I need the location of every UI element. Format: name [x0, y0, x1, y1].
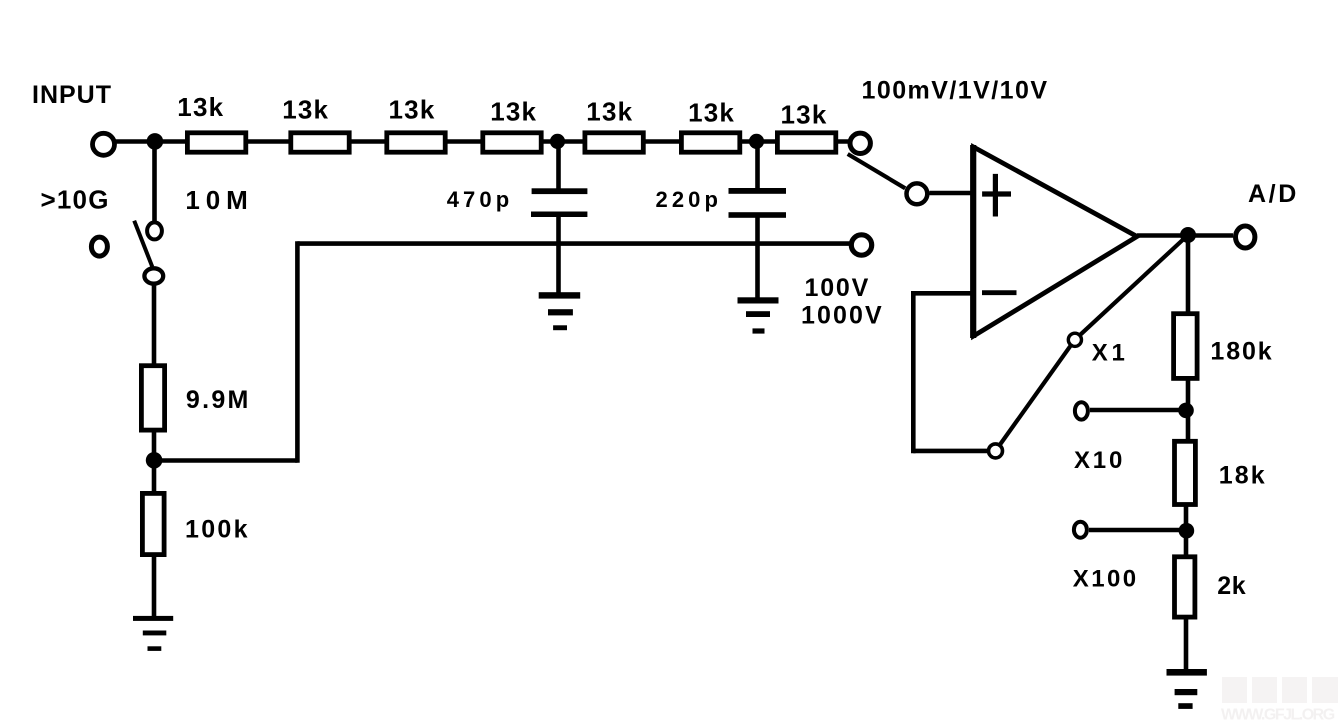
svg-text:13k: 13k — [389, 94, 436, 124]
svg-text:1000V: 1000V — [801, 302, 884, 330]
svg-text:9.9M: 9.9M — [186, 386, 251, 414]
svg-text:13k: 13k — [177, 92, 224, 122]
svg-text:470p: 470p — [447, 187, 514, 212]
svg-text:X10: X10 — [1074, 447, 1125, 474]
svg-text:WWW.GFJL.ORG: WWW.GFJL.ORG — [1221, 707, 1335, 724]
svg-text:INPUT: INPUT — [32, 81, 112, 109]
svg-text:13k: 13k — [688, 97, 735, 127]
svg-text:18k: 18k — [1219, 462, 1267, 490]
svg-text:13k: 13k — [586, 96, 633, 126]
svg-text:10M: 10M — [185, 185, 253, 215]
svg-text:A/D: A/D — [1248, 180, 1299, 208]
svg-text:13k: 13k — [282, 95, 329, 125]
svg-text:100V: 100V — [805, 274, 871, 302]
svg-text:13k: 13k — [781, 100, 828, 130]
svg-text:100k: 100k — [185, 515, 250, 543]
svg-text:2k: 2k — [1217, 572, 1246, 600]
svg-text:13k: 13k — [490, 96, 537, 126]
svg-text:X1: X1 — [1092, 340, 1129, 367]
svg-text:X100: X100 — [1073, 566, 1139, 593]
svg-text:180k: 180k — [1210, 338, 1273, 366]
svg-text:220p: 220p — [656, 187, 723, 212]
svg-text:100mV/1V/10V: 100mV/1V/10V — [862, 77, 1049, 105]
svg-text:>10G: >10G — [41, 184, 110, 214]
